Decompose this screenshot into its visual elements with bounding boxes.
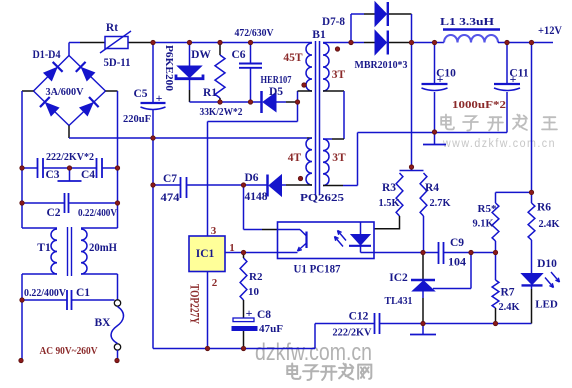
svg-text:HER107: HER107 (261, 75, 292, 86)
svg-text:D5: D5 (269, 86, 283, 98)
svg-text:C12: C12 (349, 311, 369, 323)
svg-text:222/2KV*2: 222/2KV*2 (46, 152, 94, 163)
svg-text:10: 10 (248, 286, 260, 298)
svg-text:R7: R7 (500, 287, 514, 299)
svg-text:+12V: +12V (538, 25, 563, 37)
svg-text:+: + (246, 306, 253, 320)
svg-text:222/2KV: 222/2KV (333, 327, 372, 339)
svg-text:LED: LED (535, 299, 558, 311)
svg-text:C6: C6 (231, 49, 245, 61)
svg-text:R2: R2 (249, 271, 263, 283)
svg-text:R3: R3 (382, 182, 396, 194)
svg-text:B1: B1 (312, 29, 326, 41)
svg-text:C7: C7 (163, 173, 177, 185)
svg-text:1.5K: 1.5K (379, 197, 400, 209)
svg-text:1: 1 (229, 242, 235, 254)
svg-text:DW: DW (191, 49, 211, 61)
svg-text:45T: 45T (283, 52, 303, 64)
svg-text:AC 90V~260V: AC 90V~260V (40, 345, 98, 357)
svg-text:dzkfw.com.cn: dzkfw.com.cn (255, 339, 372, 366)
svg-text:C5: C5 (133, 88, 147, 100)
svg-text:T1: T1 (37, 242, 51, 254)
svg-text:R4: R4 (425, 182, 439, 194)
svg-text:33K/2W*2: 33K/2W*2 (200, 107, 243, 118)
svg-text:PQ2625: PQ2625 (300, 192, 345, 204)
svg-text:1000uF*2: 1000uF*2 (452, 99, 507, 111)
svg-text:472/630V: 472/630V (235, 28, 274, 39)
svg-text:5D-11: 5D-11 (104, 57, 131, 69)
svg-text:IC1: IC1 (196, 248, 215, 260)
svg-text:R6: R6 (537, 202, 551, 214)
svg-text:C3: C3 (45, 169, 59, 181)
svg-text:474: 474 (161, 192, 180, 204)
svg-text:220uF: 220uF (123, 113, 151, 125)
svg-text:D1-D4: D1-D4 (33, 49, 61, 61)
svg-text:4T: 4T (288, 152, 302, 164)
svg-text:3: 3 (211, 225, 217, 237)
svg-text:D6: D6 (244, 172, 258, 184)
svg-text:C1: C1 (76, 287, 90, 299)
svg-text:D10: D10 (537, 258, 557, 270)
svg-text:9.1K: 9.1K (473, 218, 494, 230)
svg-text:TL431: TL431 (385, 295, 413, 307)
svg-text:TOP227Y: TOP227Y (188, 284, 202, 324)
svg-text:C4: C4 (81, 169, 95, 181)
svg-text:0.22/400V: 0.22/400V (24, 288, 66, 299)
svg-text:0.22/400V: 0.22/400V (78, 208, 117, 219)
svg-text:2.4K: 2.4K (539, 218, 560, 230)
svg-text:47uF: 47uF (259, 323, 283, 335)
svg-text:2: 2 (212, 277, 218, 289)
svg-text:104: 104 (448, 257, 466, 269)
svg-text:R5*: R5* (478, 203, 497, 215)
svg-text:www.dzkfw.com.cn: www.dzkfw.com.cn (442, 138, 556, 150)
svg-text:3T: 3T (332, 152, 346, 164)
svg-text:IC2: IC2 (389, 272, 408, 284)
svg-text:C9: C9 (450, 237, 464, 249)
svg-text:20mH: 20mH (89, 242, 117, 254)
svg-text:Rt: Rt (106, 22, 118, 34)
svg-text:4148: 4148 (245, 191, 268, 203)
svg-text:2.4K: 2.4K (499, 301, 520, 313)
svg-text:BX: BX (95, 317, 112, 329)
svg-text:3A/600V: 3A/600V (46, 86, 84, 98)
svg-text:P6KE200: P6KE200 (163, 45, 175, 92)
svg-text:2.7K: 2.7K (430, 197, 451, 209)
svg-text:L1 3.3uH: L1 3.3uH (440, 16, 495, 28)
svg-text:+: + (437, 72, 444, 86)
svg-text:3T: 3T (332, 69, 346, 81)
svg-text:C8: C8 (257, 309, 271, 321)
svg-text:MBR2010*3: MBR2010*3 (355, 59, 408, 71)
svg-text:+: + (156, 91, 163, 105)
svg-text:D7-8: D7-8 (322, 16, 345, 28)
svg-text:C2: C2 (46, 207, 60, 219)
svg-text:+: + (510, 72, 517, 86)
svg-text:R1: R1 (203, 87, 217, 99)
svg-text:U1 PC187: U1 PC187 (294, 264, 341, 276)
